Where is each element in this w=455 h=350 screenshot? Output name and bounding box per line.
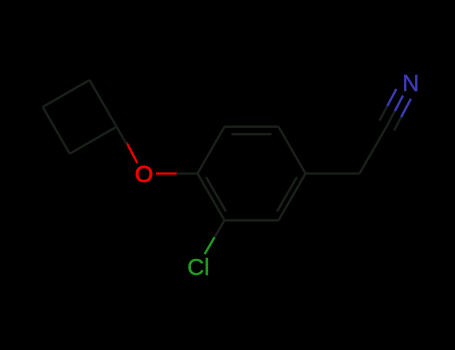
atom labels [135, 70, 419, 280]
svg-text:Cl: Cl [187, 254, 209, 280]
lower-right line [401, 99, 411, 117]
nitrile triple bond C#N : three parallel lines, blue halves near N [380, 89, 411, 130]
aromatic inner line lower-left edge [206, 177, 226, 212]
svg-text:N: N [402, 70, 419, 96]
bond ring R - CH2 [306, 172, 360, 174]
center line [395, 96, 403, 112]
bond O-ring left vertex, red half near O [156, 172, 177, 174]
bond ring BL - Cl, green half near Cl [205, 237, 215, 254]
aromatic inner line top edge [232, 133, 272, 135]
bond O-C1 (ether to cyclobutyl), red half near O [127, 143, 138, 163]
aromatic inner line lower-right edge [277, 177, 297, 212]
cyclobutane ring C1-T-U-V [43, 80, 117, 154]
upper-left line [387, 89, 396, 106]
benzene ring [198, 127, 306, 221]
svg-text:O: O [135, 161, 153, 187]
bond CH2 - nitrile C [360, 127, 387, 174]
